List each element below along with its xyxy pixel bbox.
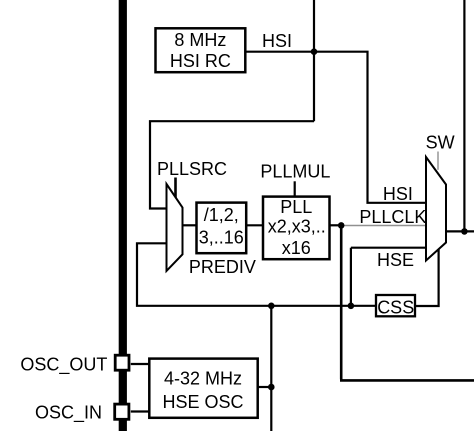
svg-text:OSC_IN: OSC_IN [35,403,102,424]
svg-text:HSE: HSE [377,250,414,270]
svg-text:/1,2,: /1,2, [204,205,239,225]
svg-text:OSC_OUT: OSC_OUT [20,354,107,375]
svg-text:x2,x3,..: x2,x3,.. [268,217,326,237]
svg-text:3,..16: 3,..16 [199,228,244,248]
svg-text:CSS: CSS [377,297,414,317]
svg-text:PLL: PLL [280,197,312,217]
svg-text:x16: x16 [282,238,311,258]
svg-text:SW: SW [426,133,455,153]
svg-text:HSI: HSI [262,31,292,51]
svg-text:4-32 MHz: 4-32 MHz [164,369,242,389]
svg-text:HSI: HSI [383,184,413,204]
svg-text:8 MHz: 8 MHz [174,30,226,50]
svg-text:HSI RC: HSI RC [170,51,231,71]
svg-text:PLLMUL: PLLMUL [260,162,330,182]
svg-text:PLLCLK: PLLCLK [359,207,426,227]
svg-text:PLLSRC: PLLSRC [157,159,227,179]
svg-text:PREDIV: PREDIV [189,257,256,277]
svg-text:HSE OSC: HSE OSC [162,392,243,412]
